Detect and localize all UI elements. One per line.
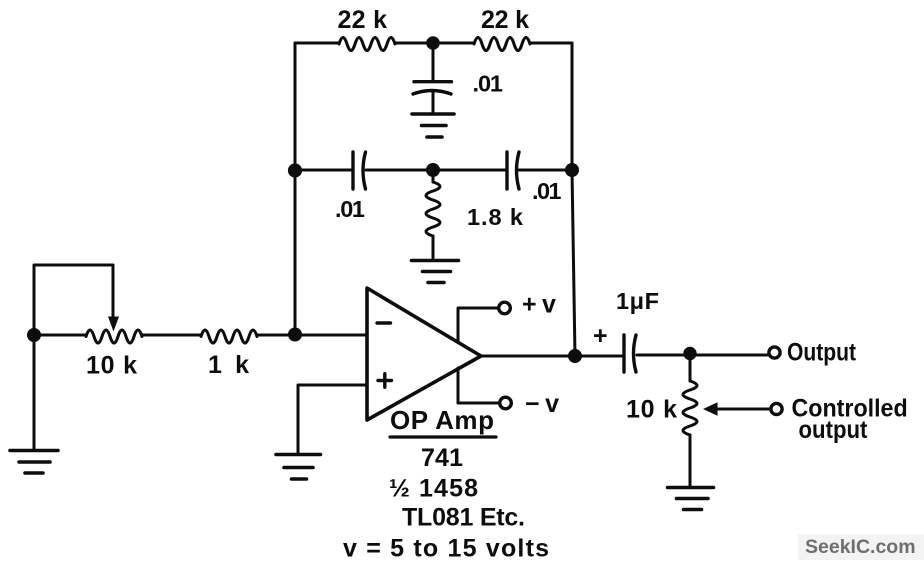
svg-text:v = 5 to 15 volts: v = 5 to 15 volts [343, 535, 549, 563]
svg-text:½ 1458: ½ 1458 [389, 475, 478, 503]
svg-text:.01: .01 [532, 178, 562, 204]
svg-text:10 k: 10 k [86, 352, 137, 380]
svg-text:1 k: 1 k [208, 351, 249, 379]
svg-text:10 k: 10 k [626, 396, 677, 424]
svg-text:+: + [593, 322, 608, 350]
svg-text:TL081 Etc.: TL081 Etc. [402, 504, 525, 532]
svg-text:1.8 k: 1.8 k [467, 204, 524, 230]
svg-text:22 k: 22 k [338, 6, 388, 34]
svg-text:741: 741 [421, 444, 463, 472]
svg-text:output: output [799, 417, 868, 445]
svg-text:SeekIC.com: SeekIC.com [805, 536, 916, 558]
svg-text:−v: −v [525, 390, 565, 418]
svg-text:.01: .01 [473, 71, 504, 97]
svg-text:OP Amp: OP Amp [390, 405, 494, 435]
svg-text:Output: Output [787, 338, 856, 366]
svg-text:.01: .01 [335, 196, 365, 222]
svg-text:1μF: 1μF [616, 288, 659, 314]
svg-text:22 k: 22 k [481, 6, 529, 34]
svg-text:+v: +v [522, 291, 561, 319]
